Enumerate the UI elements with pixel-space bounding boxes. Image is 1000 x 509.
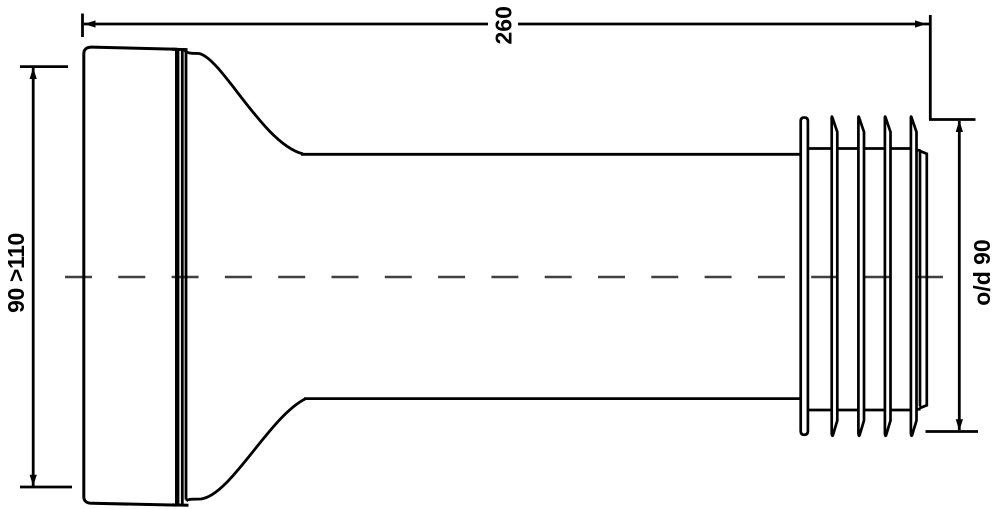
svg-text:90 >110: 90 >110 [3, 233, 29, 313]
svg-text:o/d 90: o/d 90 [969, 239, 995, 305]
svg-text:260: 260 [491, 6, 517, 44]
